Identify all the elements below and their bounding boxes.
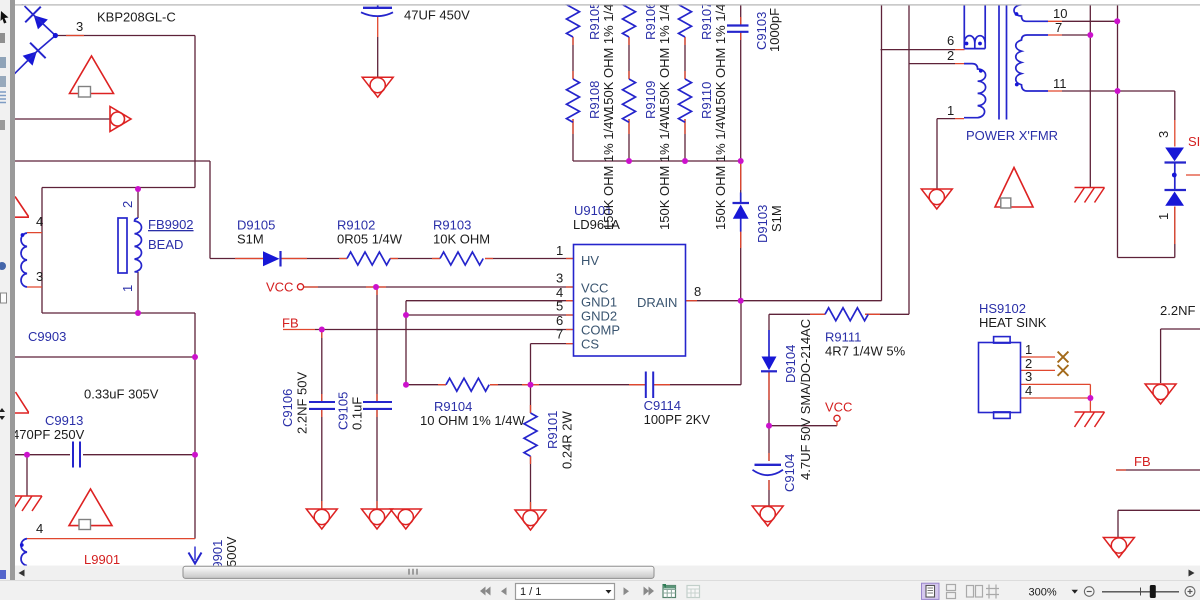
svg-text:1: 1 bbox=[120, 285, 135, 292]
svg-text:4: 4 bbox=[36, 214, 43, 229]
svg-text:POWER X'FMR: POWER X'FMR bbox=[966, 128, 1058, 143]
svg-text:2: 2 bbox=[120, 201, 135, 208]
svg-text:GND1: GND1 bbox=[581, 295, 617, 310]
svg-text:DRAIN: DRAIN bbox=[637, 295, 677, 310]
svg-text:CS: CS bbox=[581, 337, 599, 352]
svg-text:C9105: C9105 bbox=[336, 392, 351, 430]
svg-text:R9107: R9107 bbox=[699, 2, 714, 40]
svg-text:C9106: C9106 bbox=[280, 389, 295, 427]
svg-text:R9108: R9108 bbox=[587, 81, 602, 119]
svg-text:L9901: L9901 bbox=[84, 552, 120, 567]
svg-text:C9903: C9903 bbox=[28, 329, 66, 344]
svg-text:C9913: C9913 bbox=[45, 413, 83, 428]
svg-text:100PF 2KV: 100PF 2KV bbox=[644, 412, 711, 427]
svg-text:47UF 450V: 47UF 450V bbox=[404, 8, 470, 23]
svg-text:3: 3 bbox=[556, 271, 563, 286]
svg-text:3: 3 bbox=[1025, 369, 1032, 384]
svg-text:150K OHM 1% 1/4W: 150K OHM 1% 1/4W bbox=[713, 0, 728, 112]
svg-text:D9105: D9105 bbox=[237, 218, 275, 233]
svg-text:R9104: R9104 bbox=[434, 399, 472, 414]
svg-text:S1M: S1M bbox=[237, 232, 264, 247]
svg-text:FB: FB bbox=[282, 316, 299, 331]
svg-text:D9104: D9104 bbox=[783, 345, 798, 383]
svg-text:R9103: R9103 bbox=[433, 218, 471, 233]
svg-text:S1M: S1M bbox=[769, 205, 784, 232]
svg-text:R9102: R9102 bbox=[337, 218, 375, 233]
svg-text:R9105: R9105 bbox=[587, 2, 602, 40]
svg-text:VCC: VCC bbox=[266, 280, 293, 295]
svg-text:R9101: R9101 bbox=[545, 411, 560, 449]
svg-text:C9114: C9114 bbox=[644, 398, 681, 413]
svg-text:R9110: R9110 bbox=[699, 82, 714, 119]
svg-text:2.2NF: 2.2NF bbox=[1160, 303, 1195, 318]
svg-text:SI: SI bbox=[1188, 134, 1200, 149]
svg-text:11: 11 bbox=[1053, 76, 1067, 91]
svg-text:4: 4 bbox=[1025, 383, 1032, 398]
svg-text:VCC: VCC bbox=[581, 281, 608, 296]
svg-text:10 OHM 1% 1/4W: 10 OHM 1% 1/4W bbox=[420, 413, 525, 428]
svg-text:VCC: VCC bbox=[825, 400, 852, 415]
svg-text:0.1uF: 0.1uF bbox=[350, 397, 365, 430]
svg-text:3: 3 bbox=[76, 19, 83, 34]
svg-text:D9103: D9103 bbox=[755, 205, 770, 243]
svg-text:R9106: R9106 bbox=[643, 2, 658, 40]
svg-text:0.24R 2W: 0.24R 2W bbox=[560, 410, 575, 469]
svg-text:470PF 250V: 470PF 250V bbox=[12, 427, 85, 442]
svg-text:4R7 1/4W 5%: 4R7 1/4W 5% bbox=[825, 344, 906, 359]
svg-text:1000pF: 1000pF bbox=[767, 8, 782, 52]
svg-text:150K OHM 1% 1/4W: 150K OHM 1% 1/4W bbox=[657, 0, 672, 112]
svg-text:0R05 1/4W: 0R05 1/4W bbox=[337, 232, 403, 247]
svg-text:3: 3 bbox=[36, 269, 43, 284]
svg-text:KBP208GL-C: KBP208GL-C bbox=[97, 10, 176, 25]
svg-text:1: 1 bbox=[1156, 213, 1171, 220]
svg-text:R9109: R9109 bbox=[643, 81, 658, 119]
svg-text:150K OHM 1% 1/4W: 150K OHM 1% 1/4W bbox=[601, 109, 616, 230]
svg-text:10K OHM: 10K OHM bbox=[433, 232, 490, 247]
svg-text:1 / 1: 1 / 1 bbox=[520, 586, 541, 598]
svg-text:300%: 300% bbox=[1029, 587, 1057, 599]
svg-text:5: 5 bbox=[556, 299, 563, 314]
svg-text:1: 1 bbox=[556, 243, 563, 258]
svg-text:10: 10 bbox=[1053, 6, 1067, 21]
svg-text:150K OHM 1% 1/4W: 150K OHM 1% 1/4W bbox=[601, 0, 616, 112]
svg-text:4: 4 bbox=[36, 521, 43, 536]
svg-text:7: 7 bbox=[556, 327, 563, 342]
svg-text:3: 3 bbox=[1156, 131, 1171, 138]
svg-text:150K OHM 1% 1/4W: 150K OHM 1% 1/4W bbox=[713, 109, 728, 230]
svg-text:HEAT SINK: HEAT SINK bbox=[979, 315, 1047, 330]
svg-text:HV: HV bbox=[581, 253, 599, 268]
svg-text:150K OHM 1% 1/4W: 150K OHM 1% 1/4W bbox=[657, 109, 672, 230]
svg-text:GND2: GND2 bbox=[581, 309, 617, 324]
svg-text:1: 1 bbox=[947, 103, 954, 118]
svg-text:500V: 500V bbox=[224, 536, 239, 567]
svg-text:R9111: R9111 bbox=[825, 330, 861, 345]
svg-text:4.7UF 50V SMA/DO-214AC: 4.7UF 50V SMA/DO-214AC bbox=[798, 319, 813, 480]
svg-text:1: 1 bbox=[1025, 342, 1032, 357]
svg-text:HS9102: HS9102 bbox=[979, 301, 1026, 316]
svg-text:6: 6 bbox=[947, 33, 954, 48]
svg-text:BEAD: BEAD bbox=[148, 237, 183, 252]
svg-text:0.33uF 305V: 0.33uF 305V bbox=[84, 387, 159, 402]
svg-text:C9104: C9104 bbox=[782, 454, 797, 492]
svg-text:8: 8 bbox=[694, 284, 701, 299]
svg-text:2: 2 bbox=[947, 48, 954, 63]
svg-text:COMP: COMP bbox=[581, 323, 620, 338]
svg-text:FB9902: FB9902 bbox=[148, 217, 194, 232]
svg-text:7: 7 bbox=[1055, 20, 1062, 35]
svg-text:FB: FB bbox=[1134, 454, 1151, 469]
svg-text:2.2NF 50V: 2.2NF 50V bbox=[295, 372, 310, 434]
